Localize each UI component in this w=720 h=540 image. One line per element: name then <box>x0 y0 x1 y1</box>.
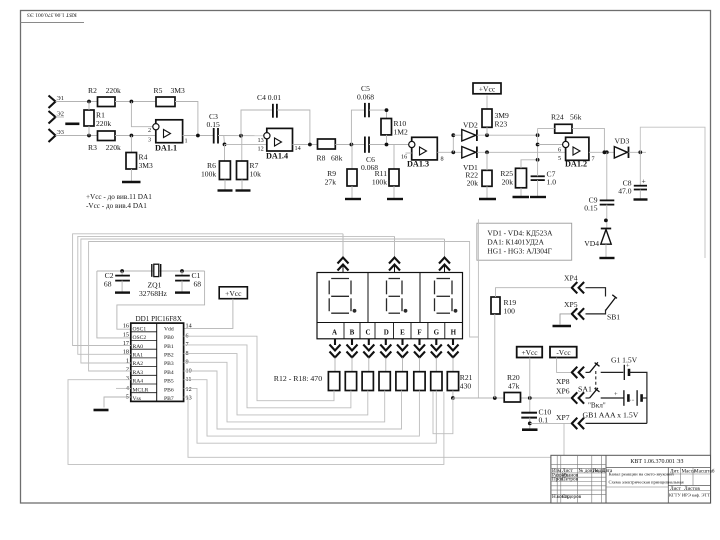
svg-text:КВТ 1.06.370.001 ЭЗ: КВТ 1.06.370.001 ЭЗ <box>630 459 683 465</box>
resistor R12 <box>328 372 339 391</box>
svg-text:0.15: 0.15 <box>584 204 597 213</box>
resistor R15 <box>379 372 390 391</box>
power tap +Vcc battery <box>517 347 543 358</box>
wire crystal left to OSC2 <box>97 271 131 338</box>
power tap -Vcc battery <box>550 347 577 358</box>
switch SA1 link dashed <box>595 371 597 388</box>
svg-text:R3: R3 <box>88 143 97 152</box>
wire RA2 to HG3 common <box>81 239 445 363</box>
wire stub Э2 <box>56 116 65 118</box>
svg-text:PB1: PB1 <box>164 344 174 350</box>
svg-text:DA1.3: DA1.3 <box>407 160 429 169</box>
svg-text:14: 14 <box>295 145 301 152</box>
svg-text:2: 2 <box>148 127 151 134</box>
capacitor C9 0.15 <box>584 152 614 212</box>
wire R21 to rail <box>452 391 454 399</box>
wire up to VD2 row <box>452 135 454 152</box>
svg-text:R12 - R18: 470: R12 - R18: 470 <box>274 374 322 383</box>
wire R19 top to XP4 <box>496 288 571 297</box>
ground under R11 <box>387 198 403 200</box>
node dot VD4 <box>604 219 608 223</box>
connector arrows HG1 common <box>338 234 349 273</box>
wire R22 to ground <box>486 186 488 198</box>
common bar at Э2 <box>65 123 79 126</box>
svg-text:Масштаб: Масштаб <box>694 467 715 474</box>
wire -Vcc to XP8 <box>557 358 570 373</box>
wire PB5 to R17 <box>184 380 420 436</box>
node dot C10 XP7 <box>528 422 532 426</box>
ground under C10 <box>522 428 538 431</box>
wire DA1.1 output <box>183 135 214 137</box>
node dot C5 branch <box>350 143 354 147</box>
svg-text:100k: 100k <box>372 178 387 187</box>
svg-text:PB2: PB2 <box>164 353 174 359</box>
wire C2 to ground <box>121 281 123 292</box>
component info box <box>477 223 572 260</box>
resistor R22 20k <box>465 170 492 187</box>
wire DA1.2 output <box>589 151 614 153</box>
connector XP8 <box>556 367 584 386</box>
node dot R1 bottom <box>87 134 91 138</box>
wire Vss to common <box>104 397 131 408</box>
digit HG1 <box>329 279 351 314</box>
svg-text:GB1 AAA x 1.5V: GB1 AAA x 1.5V <box>583 411 639 420</box>
svg-text:+Vcc - до вив.11 DA1: +Vcc - до вив.11 DA1 <box>86 193 152 201</box>
svg-text:VD4: VD4 <box>584 239 599 248</box>
svg-text:XP4: XP4 <box>564 274 578 283</box>
svg-text:16: 16 <box>123 323 129 330</box>
ground under R25 <box>513 196 530 198</box>
connector XP4 <box>564 274 584 294</box>
net vertical to rail <box>477 219 479 398</box>
svg-text:C4 0.01: C4 0.01 <box>257 93 281 102</box>
digit HG2 <box>387 279 403 314</box>
feedback wire with C4 <box>241 110 273 136</box>
resistor R21 430 <box>447 372 472 391</box>
svg-text:Лист: Лист <box>670 486 682 492</box>
resistor R6 100k <box>201 161 230 180</box>
connector arrows HG2 common <box>389 236 400 272</box>
segment connector arrows A-H <box>330 339 459 372</box>
ground under C2 <box>115 291 130 293</box>
wire C6 to DA1.3 <box>369 144 412 146</box>
svg-text:КГТУ ИРЭ каф. ЭТТ: КГТУ ИРЭ каф. ЭТТ <box>669 492 710 497</box>
input connector Э1 <box>49 95 64 108</box>
wire R7 node vertical <box>241 136 243 161</box>
svg-text:G: G <box>434 329 440 337</box>
node dot pin6 <box>536 143 540 147</box>
svg-text:DA1: К1401УД2А: DA1: К1401УД2А <box>487 238 544 247</box>
wire bottom to XP7 <box>586 422 647 424</box>
resistor R10 1M2 <box>381 119 408 137</box>
svg-text:Листов: Листов <box>684 486 700 492</box>
svg-text:XP7: XP7 <box>556 413 570 422</box>
button SB1 <box>606 295 621 322</box>
resistor R19 100 <box>491 297 516 316</box>
input connector Э2 <box>49 111 64 124</box>
node dot DA1.1 output <box>196 134 200 138</box>
svg-text:+: + <box>642 177 646 186</box>
resistor R5 3M3 <box>154 86 186 107</box>
svg-text:...: ... <box>630 397 635 403</box>
connector XP5 <box>564 300 584 320</box>
svg-text:0.15: 0.15 <box>207 120 220 129</box>
svg-text:47.0: 47.0 <box>618 187 631 196</box>
svg-text:0.068: 0.068 <box>357 93 374 102</box>
wire pin12 line <box>225 143 267 145</box>
svg-text:OSC1: OSC1 <box>133 326 147 332</box>
wire RA3 long route <box>89 242 479 372</box>
svg-text:-Vcc - до вив.4 DA1: -Vcc - до вив.4 DA1 <box>86 202 147 210</box>
capacitor C4 0.01 <box>257 93 281 118</box>
svg-text:3: 3 <box>148 137 151 144</box>
wire to top right <box>640 127 705 258</box>
svg-text:12: 12 <box>258 146 264 153</box>
wire R8 to C6 <box>335 144 365 146</box>
svg-text:3: 3 <box>126 375 129 382</box>
capacitor C10 0.1 <box>521 398 551 425</box>
svg-text:HG1 - HG3: АЛ304Г: HG1 - HG3: АЛ304Г <box>487 247 552 256</box>
svg-text:PB7: PB7 <box>164 396 174 402</box>
svg-text:PB6: PB6 <box>164 387 174 393</box>
svg-text:68: 68 <box>104 280 112 289</box>
battery GB1 AAA <box>583 390 647 419</box>
resistor R2 220k <box>88 86 121 107</box>
wire C1 to ground <box>181 281 183 292</box>
connector arrows HG3 common <box>439 239 450 273</box>
node dot R21 rail <box>451 396 455 400</box>
node dot DA1.4 output <box>308 143 312 147</box>
title block description <box>609 472 685 485</box>
input connector Э3 <box>49 129 64 142</box>
wire R11 to ground <box>393 186 395 198</box>
ground under C7 <box>530 196 546 198</box>
svg-text:VD2: VD2 <box>463 121 478 130</box>
wire feedback left vertical <box>537 128 539 159</box>
svg-text:R2: R2 <box>88 86 97 95</box>
svg-text:RA4: RA4 <box>133 379 144 385</box>
ground under R6 <box>218 189 233 191</box>
svg-text:220k: 220k <box>106 86 121 95</box>
svg-text:B: B <box>350 329 355 337</box>
svg-text:PB0: PB0 <box>164 335 174 341</box>
ground under R22 <box>479 198 496 200</box>
wire R9 vertical <box>351 145 353 170</box>
ground under XP5 <box>553 325 572 327</box>
node dot R1 top <box>87 100 91 104</box>
wire R6 node vertical <box>224 144 226 161</box>
svg-text:RA0: RA0 <box>133 344 144 350</box>
capacitor C6 0.068 <box>361 137 378 173</box>
svg-text:E: E <box>400 329 405 337</box>
svg-text:Петров: Петров <box>562 477 579 483</box>
svg-text:VD3: VD3 <box>615 137 630 146</box>
power tap +Vcc <box>473 83 501 94</box>
ground under R4 <box>122 181 141 183</box>
svg-text:PB4: PB4 <box>164 370 174 376</box>
diode VD4 <box>584 229 611 249</box>
resistor R25 20k <box>500 168 526 188</box>
node dot C9 branch <box>605 150 609 154</box>
svg-text:C: C <box>365 329 370 337</box>
node dot R23 <box>485 133 489 137</box>
wire R9 to ground <box>351 186 353 198</box>
capacitor C3 0.15 <box>207 112 220 144</box>
power tap +Vcc mcu <box>219 287 247 299</box>
wire +Vcc to Vdd <box>184 299 233 329</box>
feedback wire C4 to output <box>277 110 310 145</box>
svg-text:2: 2 <box>126 366 129 373</box>
svg-text:Схема электрическая принципиал: Схема электрическая принципиальная <box>609 480 685 485</box>
wire pin6 line <box>538 144 566 146</box>
battery G1 1.5V <box>611 356 638 381</box>
wire R7 to ground <box>241 180 243 190</box>
resistor R20 47k <box>504 373 520 402</box>
wire DA1.3 output <box>437 151 462 153</box>
svg-text:XP8: XP8 <box>556 377 570 386</box>
svg-text:Э1: Э1 <box>57 95 64 102</box>
svg-text:+: + <box>614 391 618 398</box>
svg-text:15: 15 <box>123 331 129 338</box>
op-amp DA1.3 <box>401 137 444 168</box>
svg-text:Сидоров: Сидоров <box>562 494 582 500</box>
title block frame <box>551 455 711 503</box>
svg-text:Vdd: Vdd <box>164 326 174 332</box>
svg-text:OSC2: OSC2 <box>133 335 147 341</box>
svg-text:Дата: Дата <box>602 468 613 474</box>
svg-text:RA3: RA3 <box>133 370 144 376</box>
svg-text:DA1.2: DA1.2 <box>565 160 587 169</box>
svg-text:1M2: 1M2 <box>394 128 409 137</box>
resistor R14 <box>362 372 373 391</box>
svg-text:SA1: SA1 <box>578 385 592 394</box>
svg-text:8: 8 <box>441 156 444 163</box>
wire VD4 to ground <box>605 244 607 257</box>
svg-text:VD1 - VD4: КД523А: VD1 - VD4: КД523А <box>487 229 553 238</box>
wire R22 top <box>486 152 488 170</box>
common bar at Vss <box>94 409 109 412</box>
node dot R10/R11 <box>385 143 389 147</box>
ground under R7 <box>236 189 251 191</box>
wire R6 to ground <box>224 180 226 190</box>
svg-text:XP5: XP5 <box>564 300 578 309</box>
wire +Vcc to R23 <box>486 96 488 110</box>
svg-text:R24: R24 <box>551 113 564 122</box>
svg-text:XP6: XP6 <box>556 387 570 396</box>
svg-text:DA1.1: DA1.1 <box>155 144 177 153</box>
svg-text:20k: 20k <box>502 178 514 187</box>
wire Э1 to R2 line <box>56 101 98 103</box>
svg-text:56k: 56k <box>570 113 582 122</box>
wire SB1 to XP5 <box>586 310 606 314</box>
svg-text:1: 1 <box>185 138 188 145</box>
switch SA1 lower pole <box>586 388 600 398</box>
wire VD3 out <box>629 151 647 153</box>
node dot output <box>603 150 607 154</box>
wire C5 to R10 <box>369 110 387 118</box>
svg-text:PB5: PB5 <box>164 379 174 385</box>
connector XP7 <box>556 413 584 429</box>
resistor R4 3M3 <box>126 153 153 171</box>
svg-text:1.0: 1.0 <box>547 178 557 187</box>
resistor R7 10k <box>237 161 262 180</box>
diode VD2 <box>462 121 478 142</box>
node dot feedback left top <box>536 133 540 137</box>
wire PB0 to R12 <box>184 336 334 401</box>
svg-text:Э3: Э3 <box>57 129 64 136</box>
resistor R9 27k <box>325 169 357 187</box>
wire XP7 to common <box>530 422 570 424</box>
capacitor C8 47.0 polarized <box>618 152 647 195</box>
resistor R24 56k <box>551 113 582 134</box>
svg-text:R5: R5 <box>154 86 163 95</box>
wire R24 feedback <box>538 128 605 152</box>
wire R21 node lower route <box>433 392 453 434</box>
wire MCLR stub <box>116 387 131 389</box>
wire down to pin2 <box>131 102 155 127</box>
wire C3 out to pin 13 <box>218 135 267 137</box>
op-amp DA1.4 <box>258 128 301 160</box>
wire RA0 to HG1 common <box>73 234 343 346</box>
svg-text:Vss: Vss <box>133 396 141 402</box>
svg-text:3M3: 3M3 <box>171 86 186 95</box>
svg-text:68k: 68k <box>331 154 343 163</box>
wire C7 to ground <box>537 180 539 196</box>
node dot R4 branch <box>130 134 134 138</box>
wire down to R4 <box>130 136 132 153</box>
diode VD1 <box>462 147 478 173</box>
svg-text:КВТ 1.06.370.001 ЭЗ: КВТ 1.06.370.001 ЭЗ <box>27 11 77 17</box>
wire PB4 to R16 <box>184 371 402 429</box>
svg-text:+: + <box>626 363 630 370</box>
svg-text:R8: R8 <box>317 154 326 163</box>
svg-text:D: D <box>384 329 389 337</box>
svg-text:RA1: RA1 <box>133 353 144 359</box>
op-amp DA1.1 <box>148 120 188 153</box>
node dot R25 C7 <box>536 158 540 162</box>
wire PB3 to R15 <box>184 362 385 422</box>
svg-text:Э2: Э2 <box>57 111 64 118</box>
wire R2 out to feedback node <box>115 101 156 103</box>
switch SA1 upper pole <box>578 362 600 393</box>
wire G1 to right rail <box>629 372 647 423</box>
crystal top wire <box>97 270 205 272</box>
indicator block HG1-HG3 <box>317 273 463 339</box>
wire C8 to ground <box>639 190 641 199</box>
node dot C2 <box>120 269 124 273</box>
capacitor C5 0.068 <box>357 84 374 117</box>
microcontroller DD1 PIC16F8X <box>131 315 184 402</box>
svg-text:3M3: 3M3 <box>139 161 154 170</box>
node dot R19 rail <box>493 396 497 400</box>
svg-text:"Вкл": "Вкл" <box>588 402 606 410</box>
wire RA1 to HG2 common <box>78 236 395 354</box>
svg-text:H: H <box>451 329 457 337</box>
node dot inverting branch <box>130 100 134 104</box>
wire PB1 to R13 <box>184 345 351 408</box>
svg-text:100: 100 <box>504 307 516 316</box>
digit HG3 <box>435 279 453 314</box>
wire XP4 to SB1 <box>586 288 606 297</box>
resistor R3 220k <box>88 131 121 152</box>
wire RA4 outer route <box>68 380 444 465</box>
capacitor C2 68 <box>104 271 130 289</box>
wire crystal right to OSC1 <box>117 271 205 329</box>
supply note <box>86 193 152 210</box>
wire PB7 long route <box>184 397 564 457</box>
resistor R23 3M9 <box>482 109 509 129</box>
resistor R8 68k <box>317 139 343 163</box>
wire R25 to ground <box>520 188 522 196</box>
ground under C8 <box>634 198 648 200</box>
ground under VD4 <box>599 257 614 259</box>
svg-text:+Vcc: +Vcc <box>225 289 242 298</box>
ground under C1 <box>175 291 190 293</box>
ground under R9 <box>345 198 361 200</box>
diode VD3 <box>614 137 629 159</box>
node dot pin12 branch <box>223 143 227 147</box>
wire R3 out to pin3 <box>115 135 156 137</box>
wire R23 to VD2 row <box>486 127 488 135</box>
svg-text:10k: 10k <box>250 170 262 179</box>
connector XP6 <box>556 387 584 404</box>
wire R11 vertical <box>393 145 395 170</box>
svg-text:7: 7 <box>592 156 595 163</box>
svg-text:220k: 220k <box>96 119 111 128</box>
wire R10 to main line <box>386 135 388 145</box>
svg-text:6: 6 <box>558 147 561 154</box>
svg-text:5: 5 <box>558 155 561 162</box>
wire VD2 out <box>477 134 538 136</box>
svg-text:27k: 27k <box>325 178 337 187</box>
crystal ZQ1 32768Hz <box>139 264 167 298</box>
resistor R18 <box>431 372 442 391</box>
capacitor C7 1.0 <box>531 170 557 187</box>
svg-text:68: 68 <box>194 280 202 289</box>
segment pin cells A-H <box>332 323 457 339</box>
node dot R22 <box>485 150 489 154</box>
jog wire to pin 12 node <box>223 136 226 145</box>
wire DA1.4 output <box>293 144 318 146</box>
resistor R1 220k <box>84 102 111 136</box>
wire C5 upper branch <box>351 110 365 144</box>
feedback wire R5 to output <box>175 102 198 136</box>
svg-text:Канал реакции на свето-звуково: Канал реакции на свето-звуковой <box>609 472 675 477</box>
wire C9 to VD4 <box>606 205 608 229</box>
svg-text:47k: 47k <box>508 382 520 391</box>
node dot rectifier split <box>451 150 455 154</box>
wire to VD2 <box>453 134 462 136</box>
node dot R10 top <box>385 108 389 112</box>
svg-text:13: 13 <box>186 395 192 402</box>
svg-text:R23: R23 <box>495 120 508 129</box>
svg-text:RA2: RA2 <box>133 361 144 367</box>
supply rail wire <box>453 397 570 399</box>
svg-text:32768Hz: 32768Hz <box>139 289 167 298</box>
op-amp DA1.2 <box>558 137 595 168</box>
svg-text:Лит.: Лит. <box>670 468 679 474</box>
svg-text:DD1 PIC16F8X: DD1 PIC16F8X <box>136 315 182 323</box>
svg-text:DA1.4: DA1.4 <box>266 152 288 161</box>
svg-text:A: A <box>332 329 337 337</box>
node dot Vcc rail <box>528 396 532 400</box>
svg-text:20k: 20k <box>467 179 479 188</box>
capacitor C1 68 <box>175 271 201 289</box>
node dot C4 branch <box>239 134 243 138</box>
resistor R17 <box>414 372 425 391</box>
wire R19 bottom to rail <box>494 314 496 398</box>
corner document stamp (rotated designation) <box>21 11 85 22</box>
